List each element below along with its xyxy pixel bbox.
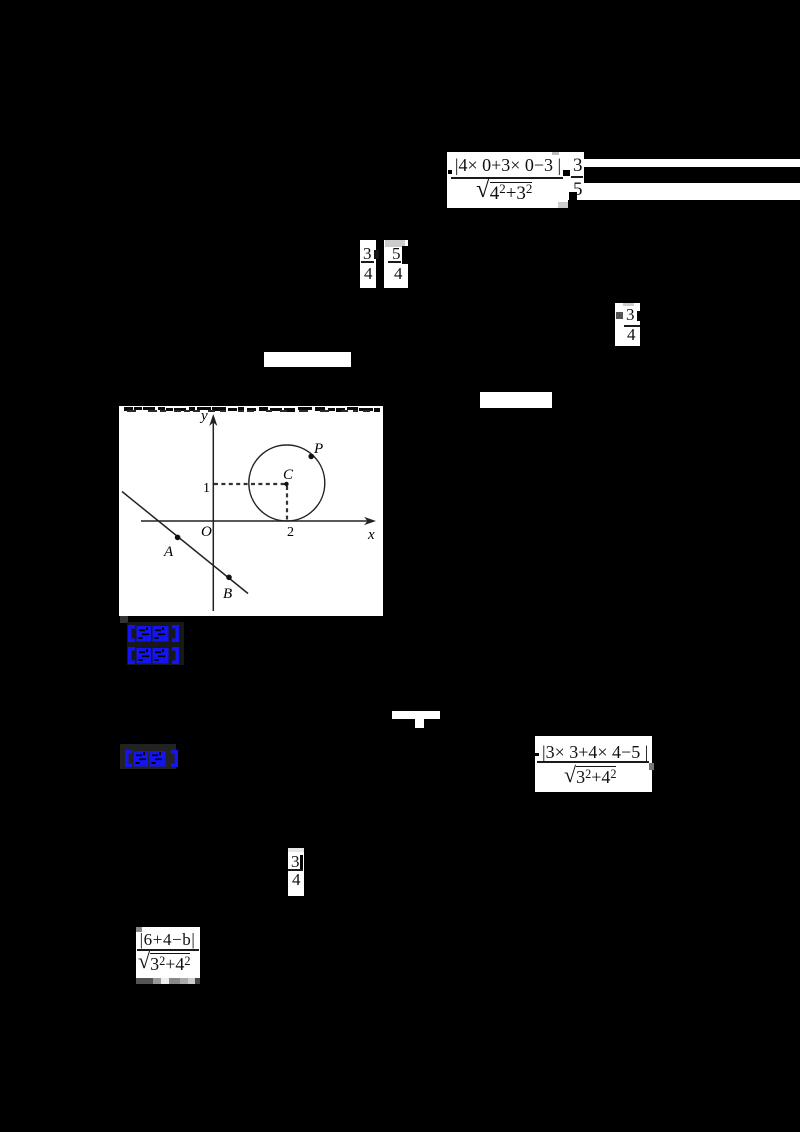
P dot and label — [308, 454, 314, 460]
formula1 gray patches — [552, 152, 559, 155]
formula5 white box — [136, 927, 200, 978]
svg-text:x: x — [367, 527, 375, 543]
formula1 =3/5 fraction — [573, 156, 583, 175]
dashed horizontal line — [214, 483, 287, 485]
svg-text:C: C — [283, 467, 294, 483]
dark marks between fractions — [374, 250, 379, 259]
formula3 white box — [535, 736, 652, 792]
formula5 denominator — [138, 952, 190, 974]
white rect mid-left — [264, 352, 351, 367]
formula1 numerator — [454, 156, 562, 174]
top cut-off text smudge — [124, 407, 380, 412]
svg-text:O: O — [201, 524, 212, 540]
x-axis — [141, 520, 371, 522]
graph white box — [119, 406, 383, 616]
svg-text:P: P — [313, 441, 323, 457]
dashed vertical line — [286, 486, 288, 520]
svg-text:1: 1 — [203, 481, 210, 496]
line AB — [122, 492, 248, 594]
formula3 gray patch right — [649, 763, 654, 770]
formula3 left tick — [535, 753, 539, 756]
formula3 numerator — [542, 743, 648, 761]
fraction 5/4 box — [384, 240, 408, 288]
formula1 left tick — [448, 170, 452, 174]
blue line 1 — [128, 624, 179, 648]
formula1 equals blob — [563, 170, 570, 176]
formula5 numerator — [138, 931, 197, 948]
svg-text:A: A — [163, 544, 174, 560]
equals gray block — [616, 312, 623, 319]
circle — [249, 445, 325, 521]
svg-text:B: B — [223, 586, 232, 602]
svg-text:y: y — [199, 408, 208, 424]
formula5 bottom gray patches — [136, 978, 153, 984]
formula1 white box — [447, 152, 568, 208]
B dot and label — [226, 575, 232, 581]
fraction 3/4 box — [360, 240, 376, 288]
=3/4 white box — [615, 303, 640, 346]
svg-text:2: 2 — [287, 525, 294, 540]
black block right of 5 — [402, 246, 408, 264]
backdrop — [127, 622, 184, 665]
formula1 black notch under 5 — [569, 192, 577, 200]
blue line 2 — [128, 646, 179, 670]
white rect mid-right — [480, 392, 552, 408]
formula1 fraction bar — [451, 177, 563, 179]
gray square under graph — [120, 616, 128, 623]
formula1 denominator — [476, 179, 532, 204]
y-axis — [212, 419, 214, 611]
right white strip 1 — [584, 159, 800, 167]
C dot and label — [284, 482, 288, 486]
A dot and label — [175, 535, 181, 541]
formula5 gray corner — [136, 927, 142, 932]
formula5 fraction bar — [137, 949, 199, 951]
right white strip 2 — [584, 183, 800, 200]
formula3 fraction bar — [537, 761, 649, 763]
formula3 denominator — [564, 765, 616, 787]
